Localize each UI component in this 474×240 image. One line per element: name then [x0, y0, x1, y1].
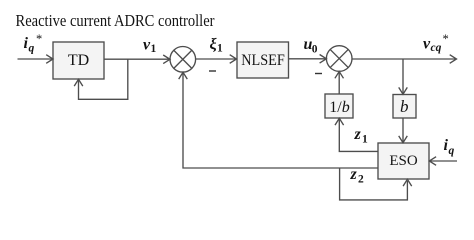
- svg-text:*: *: [443, 32, 449, 46]
- svg-text:NLSEF: NLSEF: [241, 52, 285, 69]
- svg-text:1/b: 1/b: [329, 99, 349, 116]
- svg-text:TD: TD: [68, 52, 89, 69]
- svg-text:q: q: [29, 42, 35, 54]
- svg-text:z: z: [350, 166, 358, 183]
- svg-text:ESO: ESO: [389, 153, 418, 169]
- svg-text:1: 1: [151, 43, 157, 55]
- svg-text:1: 1: [362, 134, 368, 146]
- svg-text:cq: cq: [431, 42, 442, 54]
- svg-text:*: *: [36, 32, 42, 46]
- svg-text:q: q: [449, 145, 455, 157]
- svg-text:z: z: [354, 126, 362, 143]
- svg-text:1: 1: [217, 43, 223, 55]
- svg-text:2: 2: [358, 174, 364, 186]
- svg-text:Reactive current ADRC controll: Reactive current ADRC controller: [16, 11, 215, 30]
- svg-text:b: b: [400, 97, 409, 116]
- svg-text:0: 0: [312, 44, 318, 56]
